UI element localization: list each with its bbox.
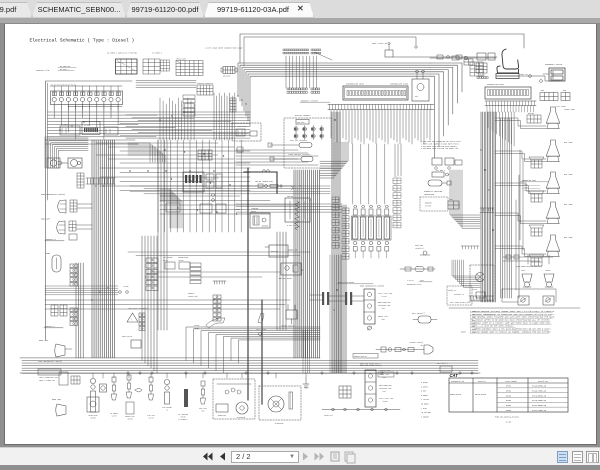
svg-text:R=D LAMP: R=D LAMP bbox=[564, 203, 573, 206]
svg-text:DP20K: DP20K bbox=[506, 395, 512, 397]
svg-text:F1 F2 F3 F4 F5 F6 F7 F8 F9: F1 F2 F3 F4 F5 F6 F7 F8 F9 bbox=[51, 85, 76, 87]
svg-text:ET17B-05001-up: ET17B-05001-up bbox=[532, 395, 546, 397]
svg-text:REAR DIRECTION: REAR DIRECTION bbox=[379, 384, 392, 387]
svg-text:COLOR LIST: COLOR LIST bbox=[324, 415, 333, 417]
svg-text:DP18K: DP18K bbox=[506, 390, 512, 392]
svg-text:AIR CLEANER: AIR CLEANER bbox=[162, 406, 171, 409]
svg-text:DP15K: DP15K bbox=[506, 386, 512, 388]
svg-text:CHANGE-OVER: CHANGE-OVER bbox=[178, 256, 188, 259]
svg-text:SAW PUMP: SAW PUMP bbox=[297, 121, 305, 124]
svg-text:CAN-BE THERMO UNIT: CAN-BE THERMO UNIT bbox=[255, 180, 273, 183]
svg-text:Used In: Used In bbox=[478, 381, 486, 383]
svg-text:SWITCH: SWITCH bbox=[178, 260, 184, 262]
svg-text:BACKUP LAMP: BACKUP LAMP bbox=[378, 315, 388, 318]
svg-text:Electrical Schematic ( Type :: Electrical Schematic ( Type : Diesel ) bbox=[30, 38, 135, 44]
svg-text:LPG5: LPG5 bbox=[449, 199, 453, 201]
svg-text:CONTROLLER (SW): CONTROLLER (SW) bbox=[390, 83, 408, 86]
svg-text:CHARGE/HR SENS: CHARGE/HR SENS bbox=[522, 179, 536, 182]
svg-text:TURN & DIRECTION LAMP: TURN & DIRECTION LAMP bbox=[39, 376, 58, 379]
svg-text:WATER LEVEL: WATER LEVEL bbox=[88, 414, 97, 417]
svg-text:!: ! bbox=[131, 319, 132, 322]
svg-text:DP30K: DP30K bbox=[506, 405, 512, 407]
svg-text:W/ATOR: W/ATOR bbox=[472, 288, 477, 291]
svg-text:TRUCK/LAMP: TRUCK/LAMP bbox=[176, 58, 186, 61]
svg-text:DBL-B4/B: DBL-B4/B bbox=[223, 76, 230, 78]
svg-text:Serial No.: Serial No. bbox=[538, 381, 549, 383]
svg-text:/5W: /5W bbox=[420, 345, 423, 347]
svg-text:/10W: /10W bbox=[382, 377, 386, 379]
svg-text:R=D LAMP: R=D LAMP bbox=[564, 141, 573, 144]
svg-text:GENERATOR PULSE: GENERATOR PULSE bbox=[407, 283, 421, 286]
svg-text:(LPG GROUP): (LPG GROUP) bbox=[178, 419, 187, 421]
svg-text:FRONT & CLEAR LAMP: FRONT & CLEAR LAMP bbox=[39, 379, 55, 382]
svg-text:R RED: R RED bbox=[421, 391, 426, 393]
svg-text:COMB: COMB bbox=[394, 191, 397, 193]
svg-text:SELECT(LPG): SELECT(LPG) bbox=[188, 296, 198, 298]
svg-text:STOP & TAIL LAMP: STOP & TAIL LAMP bbox=[379, 397, 394, 400]
svg-text:CONTROLLER UNIT: CONTROLLER UNIT bbox=[346, 83, 365, 86]
svg-text:/10W: /10W bbox=[381, 319, 385, 321]
svg-text:SENSOR: SENSOR bbox=[127, 419, 132, 421]
svg-text:BATTERY: BATTERY bbox=[271, 250, 279, 253]
svg-text:P-10 UP: P-10 UP bbox=[407, 280, 414, 282]
svg-text:CAB & OPEN MOTOR SW(OP): CAB & OPEN MOTOR SW(OP) bbox=[450, 301, 471, 304]
svg-text:CAT: CAT bbox=[450, 373, 459, 378]
svg-text:COMB: COMB bbox=[394, 176, 397, 178]
svg-text:BATTERY RELAY: BATTERY RELAY bbox=[279, 277, 292, 280]
svg-text:HYDRAULIC PRESSURE: HYDRAULIC PRESSURE bbox=[424, 190, 442, 193]
svg-text:CHECKER CONNECTOR: CHECKER CONNECTOR bbox=[197, 83, 213, 85]
svg-text:REGULATOR: REGULATOR bbox=[218, 414, 226, 417]
svg-text:HARNESS B: HARNESS B bbox=[46, 238, 57, 241]
svg-text:DP35K: DP35K bbox=[506, 410, 512, 412]
svg-text:(M MODEL): (M MODEL) bbox=[152, 53, 162, 55]
svg-text:COMB: COMB bbox=[394, 213, 397, 215]
svg-text:3-YW: 3-YW bbox=[524, 190, 528, 192]
svg-text:/21-5W: /21-5W bbox=[381, 296, 387, 298]
svg-text:SENSOR: SENSOR bbox=[180, 417, 185, 419]
svg-text:ET14B-55001-up: ET14B-55001-up bbox=[532, 386, 546, 388]
svg-text:ANT TRES M: ANT TRES M bbox=[436, 169, 445, 172]
svg-text:/21W: /21W bbox=[381, 308, 385, 310]
svg-text:STOP & TAIL LAMP: STOP & TAIL LAMP bbox=[378, 292, 393, 295]
svg-text:FIRST: FIRST bbox=[521, 270, 526, 272]
svg-text:ROPE LAMP(*): ROPE LAMP(*) bbox=[437, 362, 448, 365]
svg-text:LIGHT LAMP: LIGHT LAMP bbox=[564, 108, 575, 111]
svg-text:DIESEL MODELS: DIESEL MODELS bbox=[295, 114, 311, 117]
svg-text:ET17B-15001-up: ET17B-15001-up bbox=[532, 400, 546, 402]
svg-text:DP25K: DP25K bbox=[506, 400, 512, 402]
svg-text:SECOND: SECOND bbox=[545, 270, 551, 272]
svg-text:TIMER CONTROL SOLENOID: TIMER CONTROL SOLENOID bbox=[288, 154, 310, 156]
svg-text:FUEL CUT SOLENOID: FUEL CUT SOLENOID bbox=[290, 140, 307, 142]
svg-text:B BLACK: B BLACK bbox=[421, 381, 428, 384]
svg-text:Y YELLOW: Y YELLOW bbox=[421, 399, 429, 401]
svg-text:E0010-61120: E0010-61120 bbox=[450, 394, 461, 396]
svg-text:/21&5W: /21&5W bbox=[382, 401, 388, 403]
svg-text:HARNESS: HARNESS bbox=[425, 202, 432, 205]
svg-text:TRANSDUCER: TRANSDUCER bbox=[424, 193, 434, 196]
svg-text:STOP LAMP: STOP LAMP bbox=[147, 414, 155, 417]
svg-text:CHASSIS N/A: CHASSIS N/A bbox=[36, 69, 50, 72]
svg-text:UNIT: UNIT bbox=[201, 411, 205, 413]
svg-text:L BLUE: L BLUE bbox=[421, 408, 427, 410]
svg-text:REAR DIRECTION: REAR DIRECTION bbox=[378, 301, 391, 304]
svg-text:SEAT STICK SW: SEAT STICK SW bbox=[372, 42, 388, 45]
svg-text:GRN: GRN bbox=[541, 90, 544, 92]
svg-text:O ORANGE: O ORANGE bbox=[421, 415, 429, 418]
svg-text:FUEL TANK: FUEL TANK bbox=[199, 407, 207, 410]
svg-text:DOOR SWITCH: DOOR SWITCH bbox=[122, 336, 132, 338]
svg-text:TYPE(B/L4): TYPE(B/L4) bbox=[415, 248, 424, 250]
svg-text:REAR LAMP: REAR LAMP bbox=[52, 398, 61, 401]
svg-text:LPG CONTROL: LPG CONTROL bbox=[163, 257, 173, 259]
svg-text:LG THERMO: LG THERMO bbox=[110, 413, 118, 415]
svg-text:3-31: 3-31 bbox=[506, 421, 512, 424]
svg-text:G GREEN: G GREEN bbox=[421, 395, 428, 397]
svg-text:BACKUP LAMP: BACKUP LAMP bbox=[380, 369, 390, 372]
svg-text:GRN: GRN bbox=[563, 90, 566, 92]
svg-text:REAR COMBINATION LAMP(R): REAR COMBINATION LAMP(R) bbox=[360, 285, 384, 288]
svg-text:W WHITE: W WHITE bbox=[421, 386, 428, 388]
svg-text:SWITCH: SWITCH bbox=[111, 416, 116, 418]
svg-text:SEAT SW: SEAT SW bbox=[520, 73, 528, 76]
svg-text:ECU: ECU bbox=[415, 96, 418, 98]
svg-text:ET14C-75001-up: ET14C-75001-up bbox=[532, 410, 546, 412]
svg-text:CAN-BE: CAN-BE bbox=[287, 195, 293, 198]
svg-text:R=D LAMP: R=D LAMP bbox=[564, 236, 573, 239]
svg-text:HEAD LAMP: HEAD LAMP bbox=[41, 218, 50, 221]
svg-text:SW: SW bbox=[166, 410, 168, 412]
svg-text:GRN-GRN: GRN-GRN bbox=[528, 113, 534, 115]
svg-text:INDICATOR LAMP: INDICATOR LAMP bbox=[379, 387, 392, 390]
svg-text:1-5/8 LEAD WIRE CONNECTION DIA: 1-5/8 LEAD WIRE CONNECTION DIAG bbox=[205, 47, 243, 50]
svg-text:SYSTEM: SYSTEM bbox=[425, 206, 431, 208]
svg-text:SENSOR: SENSOR bbox=[90, 418, 95, 420]
svg-text:R=D LAMP: R=D LAMP bbox=[564, 173, 573, 176]
svg-text:ALTERNATOR: ALTERNATOR bbox=[237, 416, 246, 419]
svg-text:CONTROLLER UNIT: CONTROLLER UNIT bbox=[487, 83, 505, 86]
svg-text:Pub.No.99719-61120: Pub.No.99719-61120 bbox=[495, 416, 519, 419]
svg-text:INDICATOR LAMP: INDICATOR LAMP bbox=[378, 304, 391, 307]
svg-text:OVER CRASH APPR-OR LAMP(OP): OVER CRASH APPR-OR LAMP(OP) bbox=[516, 265, 542, 268]
svg-text:L=LINE: L=LINE bbox=[123, 286, 129, 288]
svg-text:SWITCH: SWITCH bbox=[148, 418, 153, 420]
svg-text:1.SPEC NOTE FOR CONTROLLER SET: 1.SPEC NOTE FOR CONTROLLER SET A/B-29 UN… bbox=[421, 140, 461, 143]
svg-text:Truck Model: Truck Model bbox=[505, 381, 517, 383]
svg-text:LIST LENGN: LIST LENGN bbox=[556, 106, 566, 108]
svg-text:BR BROWN: BR BROWN bbox=[421, 404, 429, 406]
svg-text:COMB: COMB bbox=[394, 198, 397, 200]
svg-text:LEVER: LEVER bbox=[194, 328, 199, 330]
svg-text:GLOW RELAY: GLOW RELAY bbox=[237, 125, 247, 128]
svg-text:COMB: COMB bbox=[394, 183, 397, 185]
svg-text:HARNESS/ENG RR: HARNESS/ENG RR bbox=[354, 355, 367, 358]
svg-text:EARTH: EARTH bbox=[304, 386, 309, 389]
svg-text:LG LGT-GRN: LG LGT-GRN bbox=[421, 412, 431, 414]
svg-text:COMB: COMB bbox=[394, 220, 397, 222]
svg-text:(A WHEEL) (ARTICLE) F/B9/PB): (A WHEEL) (ARTICLE) F/B9/PB) bbox=[107, 52, 137, 55]
svg-text:BLACKOUT SW: BLACKOUT SW bbox=[454, 293, 464, 296]
svg-text:HARNESS E: HARNESS E bbox=[45, 325, 55, 328]
svg-text:ALTERNATOR: ALTERNATOR bbox=[275, 422, 284, 425]
svg-text:HEAD COMBINATION LAMP(R): HEAD COMBINATION LAMP(R) bbox=[41, 193, 65, 196]
svg-text:/21W: /21W bbox=[382, 391, 386, 393]
svg-text:CAB(B) SW: CAB(B) SW bbox=[448, 289, 456, 292]
svg-text:LICENSE LAMP(R): LICENSE LAMP(R) bbox=[409, 341, 423, 344]
svg-text:HARNESS: HARNESS bbox=[188, 292, 194, 295]
svg-text:ET14C-55001-up: ET14C-55001-up bbox=[532, 405, 546, 407]
svg-text:Schematic No.: Schematic No. bbox=[451, 381, 465, 383]
svg-text:BATT BACKUP(*): BATT BACKUP(*) bbox=[412, 312, 425, 315]
svg-text:COMB: COMB bbox=[394, 206, 397, 208]
svg-text:HORN: HORN bbox=[46, 253, 50, 255]
svg-text:RELAY: RELAY bbox=[251, 210, 256, 213]
svg-text:NOTE: NOTE bbox=[461, 331, 467, 334]
svg-text:DOOR CHAR: DOOR CHAR bbox=[415, 244, 423, 247]
svg-text:EMERGENCY SWITCH: EMERGENCY SWITCH bbox=[545, 64, 562, 66]
svg-text:ON-OFF: ON-OFF bbox=[194, 325, 200, 327]
svg-text:SHIFT LEVER: SHIFT LEVER bbox=[256, 329, 266, 331]
svg-text:OIL PRESSURE: OIL PRESSURE bbox=[178, 414, 188, 416]
svg-text:99719-61120: 99719-61120 bbox=[475, 394, 486, 396]
svg-text:BRAKE FLUID: BRAKE FLUID bbox=[125, 415, 134, 418]
svg-text:REAR LAMP: REAR LAMP bbox=[39, 339, 48, 342]
svg-text:ET14B-75001-up: ET14B-75001-up bbox=[532, 390, 546, 392]
